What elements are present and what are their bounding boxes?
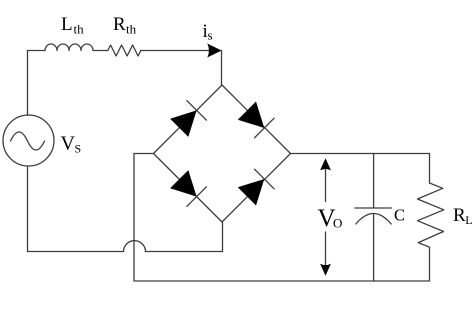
svg-text:th: th <box>74 22 85 37</box>
current arrowhead is <box>207 44 221 58</box>
svg-text:O: O <box>333 216 342 231</box>
wire between Lth and Rth <box>93 50 108 52</box>
capacitor C curved bottom plate <box>356 214 391 225</box>
diode D3 cathode bar <box>187 187 207 207</box>
inductor Lth <box>45 44 93 51</box>
svg-text:R: R <box>453 205 466 226</box>
wire from arrow corner down to bridge top vertex <box>221 51 223 86</box>
diode D2 cathode bar <box>255 118 275 138</box>
wire hop over vertical <box>124 241 146 252</box>
wire bottom rail left of hop <box>28 251 124 253</box>
wire RL branch top vertical <box>429 154 431 184</box>
capacitor C top plate <box>355 207 392 209</box>
svg-text:th: th <box>126 22 137 37</box>
svg-text:L: L <box>465 213 472 227</box>
svg-text:s: s <box>208 28 213 43</box>
svg-text:S: S <box>75 142 82 156</box>
wire top-left horizontal segment <box>28 50 46 52</box>
resistor Rth <box>108 45 141 56</box>
svg-text:R: R <box>113 14 126 35</box>
wire left vertex to vertical bus <box>134 153 154 155</box>
source sine wave <box>11 132 45 150</box>
wire vertical bus through hop <box>133 154 135 282</box>
wire bottom output rail <box>134 280 430 282</box>
svg-text:V: V <box>61 133 76 155</box>
wire right vertex to RL branch <box>291 153 430 155</box>
diode D4 cathode bar <box>255 169 275 189</box>
wire RL branch bottom vertical <box>429 247 431 281</box>
svg-text:C: C <box>394 205 405 224</box>
wire bottom rail right of hop <box>146 251 223 253</box>
svg-text:L: L <box>61 14 73 35</box>
diode D1 (left vertex to top vertex) triangle <box>170 110 197 136</box>
wire Rth to is arrow <box>141 50 209 52</box>
Vo arrowhead down <box>320 264 331 276</box>
bridge diamond edges <box>154 85 291 222</box>
wire source bottom down to bottom rail <box>27 166 29 252</box>
Vo arrowhead up <box>320 158 331 170</box>
Vo arrow shaft upper <box>325 167 327 202</box>
diode D1 cathode bar <box>187 101 207 121</box>
Vo arrow shaft lower <box>325 232 327 267</box>
diode D2 (top vertex to right vertex) triangle <box>238 102 264 129</box>
wire up to bridge bottom vertex <box>222 222 224 252</box>
diode D4 (bottom vertex to right vertex) triangle <box>238 179 264 206</box>
resistor RL zigzag <box>418 183 444 247</box>
wire capacitor branch bottom <box>373 214 375 281</box>
source Vs circle <box>3 115 54 166</box>
wire capacitor branch top <box>373 154 375 209</box>
diode D3 (left vertex to bottom vertex) triangle <box>170 170 197 197</box>
wire left vertical from top wire to source top <box>27 51 29 116</box>
